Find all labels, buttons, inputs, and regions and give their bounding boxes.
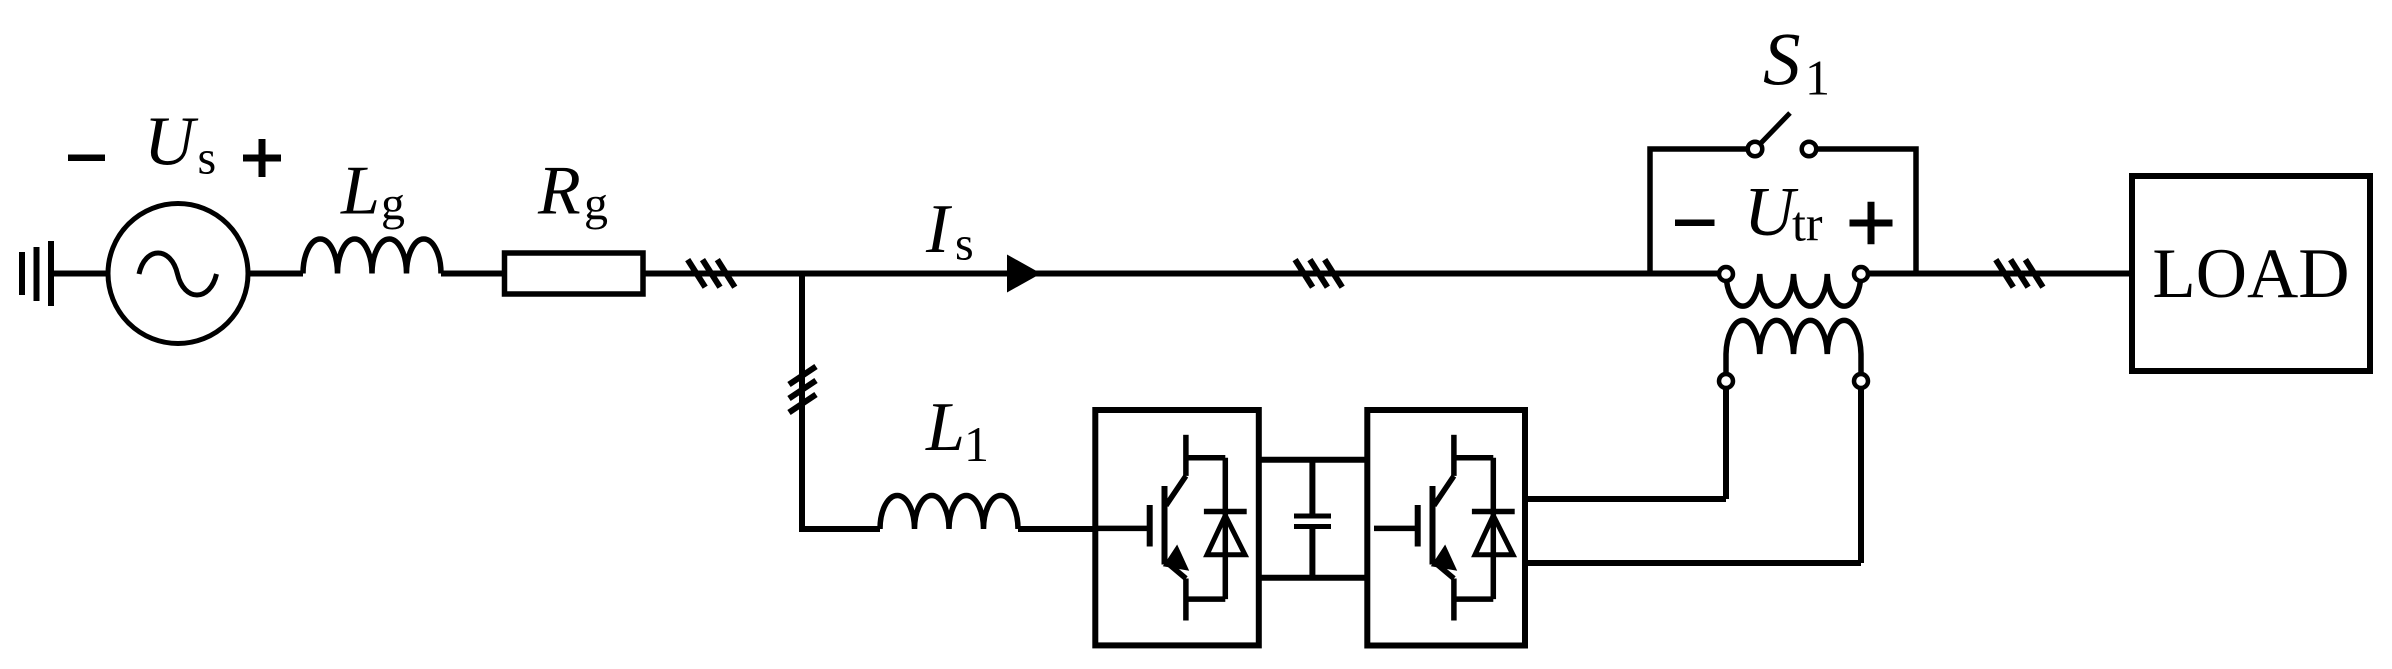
svg-text:tr: tr	[1792, 196, 1823, 252]
svg-text:L: L	[925, 389, 965, 466]
svg-text:R: R	[537, 153, 581, 230]
svg-text:LOAD: LOAD	[2152, 235, 2349, 313]
svg-text:1: 1	[1805, 50, 1830, 106]
svg-text:I: I	[925, 191, 953, 268]
svg-text:L: L	[340, 153, 380, 230]
svg-text:1: 1	[964, 416, 989, 472]
svg-text:U: U	[1744, 174, 1799, 251]
svg-text:s: s	[198, 131, 217, 184]
svg-text:g: g	[381, 178, 405, 231]
svg-text:s: s	[955, 218, 974, 271]
svg-text:g: g	[584, 178, 608, 231]
svg-text:U: U	[144, 104, 199, 181]
svg-text:S: S	[1763, 19, 1801, 102]
